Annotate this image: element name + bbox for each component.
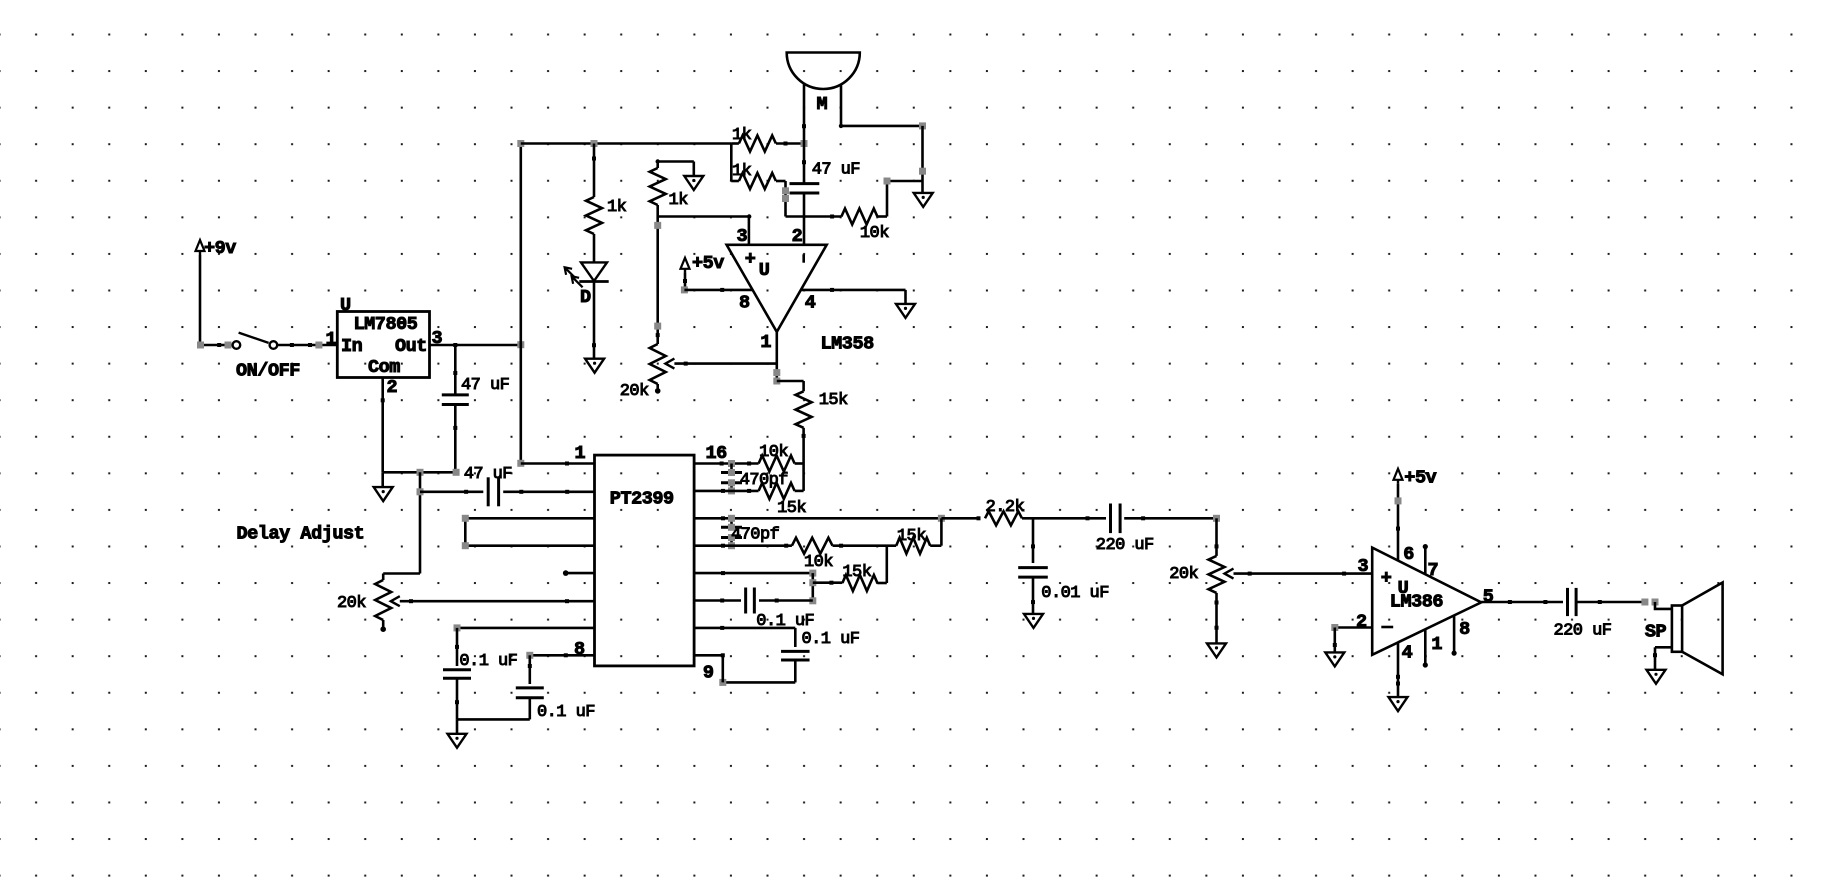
svg-text:20k: 20k xyxy=(620,382,649,401)
svg-text:+9v: +9v xyxy=(204,238,236,259)
svg-text:8: 8 xyxy=(739,293,750,314)
svg-text:8: 8 xyxy=(1459,619,1470,640)
svg-text:15k: 15k xyxy=(819,391,848,410)
svg-text:20k: 20k xyxy=(337,594,366,613)
svg-text:1k: 1k xyxy=(607,198,627,217)
svg-text:4: 4 xyxy=(1402,643,1413,664)
svg-text:0.1 uF: 0.1 uF xyxy=(459,652,517,671)
svg-text:47 uF: 47 uF xyxy=(464,465,512,484)
svg-text:Delay Adjust: Delay Adjust xyxy=(237,524,365,545)
svg-text:M: M xyxy=(817,94,828,115)
svg-text:15k: 15k xyxy=(897,527,926,546)
svg-text:0.1 uF: 0.1 uF xyxy=(537,703,595,722)
svg-text:47 uF: 47 uF xyxy=(812,161,860,180)
svg-text:4: 4 xyxy=(805,293,816,314)
svg-text:LM358: LM358 xyxy=(821,334,875,355)
svg-text:+: + xyxy=(1381,568,1392,589)
svg-text:220 uF: 220 uF xyxy=(1096,536,1154,555)
svg-text:470pf: 470pf xyxy=(731,526,780,545)
svg-text:3: 3 xyxy=(737,226,748,247)
svg-text:LM7805: LM7805 xyxy=(354,314,418,335)
svg-text:D: D xyxy=(580,287,591,308)
svg-text:+5v: +5v xyxy=(1404,468,1436,489)
svg-text:1: 1 xyxy=(326,329,337,350)
svg-text:Com: Com xyxy=(368,357,400,378)
svg-text:1k: 1k xyxy=(669,191,689,210)
svg-text:5: 5 xyxy=(1483,587,1494,608)
svg-text:PT2399: PT2399 xyxy=(610,489,674,510)
svg-text:0.01 uF: 0.01 uF xyxy=(1041,584,1109,603)
svg-text:3: 3 xyxy=(1358,556,1369,577)
svg-text:1: 1 xyxy=(575,443,586,464)
svg-text:10k: 10k xyxy=(804,553,833,572)
svg-text:2: 2 xyxy=(387,377,398,398)
svg-text:Out: Out xyxy=(395,336,427,357)
svg-text:10k: 10k xyxy=(860,224,889,243)
svg-text:U: U xyxy=(340,295,351,316)
svg-text:16: 16 xyxy=(706,443,728,464)
svg-text:1: 1 xyxy=(1431,634,1442,655)
svg-text:In: In xyxy=(341,336,362,357)
svg-text:2: 2 xyxy=(792,226,803,247)
svg-text:220 uF: 220 uF xyxy=(1554,622,1612,641)
svg-text:1k: 1k xyxy=(732,162,752,181)
svg-text:1: 1 xyxy=(760,332,771,353)
svg-text:8: 8 xyxy=(574,639,585,660)
svg-text:0.1 uF: 0.1 uF xyxy=(802,630,860,649)
svg-text:9: 9 xyxy=(703,663,714,684)
svg-text:6: 6 xyxy=(1403,544,1414,565)
svg-text:7: 7 xyxy=(1428,560,1439,581)
svg-text:1k: 1k xyxy=(732,126,752,145)
svg-text:+: + xyxy=(745,249,756,270)
svg-text:10k: 10k xyxy=(759,443,788,462)
svg-text:15k: 15k xyxy=(777,499,806,518)
svg-text:15k: 15k xyxy=(842,563,871,582)
svg-text:2: 2 xyxy=(1356,612,1367,633)
svg-text:U: U xyxy=(759,260,770,281)
svg-text:SP: SP xyxy=(1645,622,1667,643)
svg-text:LM386: LM386 xyxy=(1390,592,1444,613)
svg-text:2.2k: 2.2k xyxy=(986,498,1025,517)
svg-text:47 uF: 47 uF xyxy=(461,376,509,395)
svg-text:+5v: +5v xyxy=(692,253,724,274)
svg-text:20k: 20k xyxy=(1169,565,1198,584)
svg-text:ON/OFF: ON/OFF xyxy=(236,361,300,382)
